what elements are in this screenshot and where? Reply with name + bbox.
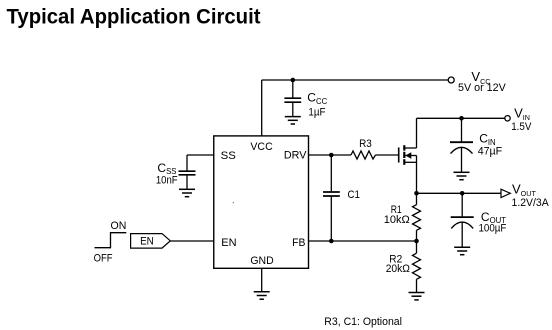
wire SS pin: [187, 154, 214, 156]
svg-text:EN: EN: [221, 237, 236, 249]
svg-text:FB: FB: [292, 237, 305, 249]
svg-text:Typical Application Circuit: Typical Application Circuit: [7, 6, 261, 29]
node C1 bottom: [329, 239, 334, 244]
node C_IN tap: [459, 116, 464, 121]
wire EN flag to EN pin: [170, 240, 213, 242]
node C_CC tap: [291, 78, 296, 83]
capacitor C1: [323, 155, 340, 241]
svg-text:47µF: 47µF: [478, 146, 503, 158]
transistor Q1 drain stub: [404, 147, 416, 149]
node source junction: [414, 191, 419, 196]
ground under R2: [409, 293, 425, 300]
svg-text:10nF: 10nF: [156, 174, 178, 186]
capacitor C_IN polarized: [450, 118, 473, 172]
wire top VCC rail: [262, 79, 448, 81]
node FB junction: [414, 239, 419, 244]
terminal VIN circle: [505, 116, 510, 121]
transistor Q1 channel segments: [403, 145, 405, 165]
svg-text:10kΩ: 10kΩ: [384, 214, 410, 226]
svg-text:VIN: VIN: [514, 106, 530, 123]
transistor Q1 gate bar: [398, 148, 400, 163]
terminal VOUT arrow: [501, 189, 510, 197]
wire GND pin to ground: [261, 268, 263, 291]
capacitor C_SS: [179, 155, 196, 189]
resistor R2: [413, 241, 421, 292]
ground under C_SS: [179, 189, 195, 196]
stray speck artifact: [233, 202, 234, 203]
resistor R1: [413, 193, 421, 241]
terminal VCC circle: [448, 77, 454, 83]
ground under C_IN: [454, 172, 470, 179]
wire DRV pin to R3: [309, 154, 352, 156]
wire VIN rail: [417, 117, 505, 119]
svg-text:1µF: 1µF: [308, 107, 325, 119]
svg-text:R3, C1: Optional: R3, C1: Optional: [324, 316, 402, 328]
transistor Q1 source stub: [404, 161, 416, 163]
svg-text:GND: GND: [250, 255, 273, 267]
svg-text:ON: ON: [111, 220, 127, 232]
resistor R3: [351, 151, 376, 159]
ground under C_CC: [285, 117, 301, 124]
node C1 top: [329, 153, 334, 158]
waveform ON/OFF: [95, 233, 127, 248]
wire VCC pin to top rail: [261, 80, 263, 136]
ground under C_OUT: [454, 247, 470, 254]
IC U1 body: [214, 136, 309, 268]
svg-text:20kΩ: 20kΩ: [386, 263, 410, 275]
svg-text:1.5V: 1.5V: [511, 121, 532, 133]
svg-text:VOUT: VOUT: [512, 181, 536, 198]
svg-text:OFF: OFF: [94, 253, 113, 265]
transistor Q1 source lead: [416, 156, 418, 194]
EN input flag: [131, 234, 171, 249]
capacitor C_CC: [284, 80, 301, 116]
svg-text:5V or 12V: 5V or 12V: [458, 82, 507, 94]
ground under IC GND: [254, 292, 270, 299]
svg-text:100µF: 100µF: [479, 223, 507, 235]
svg-text:C1: C1: [348, 189, 361, 201]
svg-text:CCC: CCC: [307, 90, 327, 105]
transistor Q1 drain lead: [416, 118, 418, 148]
svg-text:1.2V/3A: 1.2V/3A: [512, 197, 550, 209]
svg-text:DRV: DRV: [284, 150, 307, 162]
svg-text:R3: R3: [359, 138, 372, 150]
svg-text:EN: EN: [140, 235, 154, 247]
svg-text:VCC: VCC: [250, 141, 272, 153]
svg-text:SS: SS: [221, 150, 236, 162]
capacitor C_OUT polarized: [451, 193, 474, 247]
wire R3 to gate: [376, 154, 399, 156]
node C_OUT tap: [460, 191, 465, 196]
wire FB pin to divider: [309, 240, 417, 242]
wire VOUT rail: [417, 192, 502, 194]
transistor Q1 body stub with arrow: [405, 152, 416, 158]
